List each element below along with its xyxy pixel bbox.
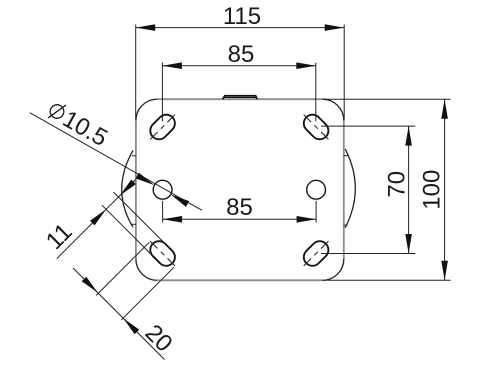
dim 85 top arrow left <box>162 62 182 69</box>
dim 85 top extension line left <box>161 63 163 122</box>
dim 85 top extension line right <box>315 63 317 122</box>
dim 85 top arrow right <box>296 62 316 69</box>
left flange tick bottom <box>132 223 136 225</box>
dim 70 arrow top <box>405 126 412 146</box>
dim 20 arrow upper (points down-right) <box>82 277 98 293</box>
dim 85 inner arrow right <box>297 216 317 223</box>
svg-text:70: 70 <box>383 171 410 198</box>
dim 11 line <box>57 179 136 258</box>
dim 70 extension line top <box>321 125 415 127</box>
svg-text:85: 85 <box>226 194 253 221</box>
dim 11 arrow lower (points up-right) <box>90 209 106 225</box>
dim 20 line <box>73 268 165 360</box>
dim 115 arrow left <box>136 24 156 31</box>
dim 11 extension line upper (slot side tangent) <box>114 192 165 243</box>
dim 85 inner line <box>163 218 317 220</box>
svg-text:100: 100 <box>419 170 446 210</box>
top tab <box>223 96 258 100</box>
slot top-right centerline <box>304 115 329 140</box>
plate right edge <box>343 121 345 260</box>
slot bottom-right centerline <box>304 241 329 266</box>
dim 100 line <box>444 99 446 280</box>
dim 115 extension line right <box>343 25 345 120</box>
slot bottom-right <box>300 238 332 270</box>
slot top-left centerline <box>150 115 175 140</box>
plate corner arc bottom-left <box>136 259 157 280</box>
dim 115 line <box>136 27 345 29</box>
right flange arc <box>345 149 355 228</box>
diameter arrow upper-left <box>136 173 155 186</box>
dim 20 extension line upper (from slot end) <box>96 243 149 296</box>
svg-text:20: 20 <box>140 319 178 357</box>
diameter arrow lower-right <box>171 194 190 207</box>
plate corner arc top-left <box>136 99 157 120</box>
svg-text:11: 11 <box>41 218 78 255</box>
bolt circle right <box>307 180 326 199</box>
dim 115 arrow right <box>325 24 345 31</box>
left flange arc <box>122 150 133 227</box>
plate corner arc top-right <box>323 99 344 120</box>
dim 85 inner arrow left <box>163 216 183 223</box>
slot bottom-left centerline <box>150 241 175 266</box>
svg-text:85: 85 <box>228 41 255 68</box>
dim 20 arrow lower (points up-left) <box>123 318 139 334</box>
dim 70 line <box>408 126 410 253</box>
right flange tick top <box>344 155 348 157</box>
dim 85 inner extension line right <box>315 201 317 223</box>
dim 85 top line <box>162 65 315 67</box>
dim 100 extension line bottom <box>323 279 451 281</box>
dim 85 inner extension line left <box>162 201 164 223</box>
dim 70 arrow bottom <box>405 234 412 254</box>
dim 11 arrow upper (points down-left) <box>120 180 136 196</box>
top tab inner line <box>224 96 257 98</box>
dim 20 extension line lower (from slot end) <box>121 267 173 320</box>
dim 115 extension line left <box>135 25 137 120</box>
plate bottom edge <box>157 279 322 281</box>
diameter leader line <box>30 113 202 211</box>
dim 100 arrow bottom <box>441 261 448 281</box>
bolt circle left <box>153 180 172 199</box>
dim 100 arrow top <box>441 99 448 119</box>
dim 11 extension line lower (slot side tangent) <box>102 205 152 255</box>
plate corner arc bottom-right <box>323 259 344 280</box>
right flange tick bottom <box>344 224 348 226</box>
plate left edge <box>135 121 137 260</box>
plate top edge <box>157 98 322 100</box>
slot top-right <box>300 111 332 143</box>
dim 100 extension line top <box>323 98 451 100</box>
svg-text:115: 115 <box>223 3 261 30</box>
svg-text:10.5: 10.5 <box>58 106 112 153</box>
slot bottom-left <box>147 238 179 270</box>
slot top-left <box>147 111 179 143</box>
dim 70 extension line bottom <box>321 253 415 255</box>
left flange tick top <box>132 155 136 157</box>
diameter symbol and text 10.5 <box>44 97 112 152</box>
